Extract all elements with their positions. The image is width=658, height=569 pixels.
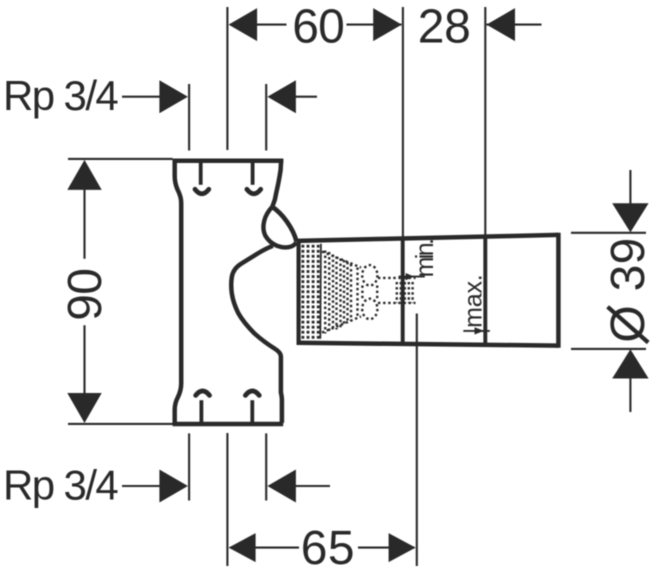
extension line Rp3/4 top right — [265, 84, 267, 151]
stipple loop lower — [362, 299, 377, 319]
leader tail Rp3/4 bottom right arrow — [290, 485, 330, 487]
arrow min — [406, 273, 415, 280]
body left profile — [175, 159, 182, 425]
extension line max (28) — [484, 7, 486, 236]
svg-text:Rp 3/4: Rp 3/4 — [3, 461, 118, 508]
cartridge top edge (cone) — [297, 235, 559, 241]
extension line min (60) — [402, 7, 404, 239]
dimension 60 line left tail — [230, 24, 287, 26]
knurl dot grid — [302, 245, 305, 248]
stipple cone col 6 — [356, 268, 358, 318]
stipple cone col 2b — [332, 255, 334, 331]
extension line d39 bottom — [571, 348, 646, 350]
dimension 65 left tail — [230, 547, 299, 549]
stipple knob col e — [411, 282, 413, 303]
extension line Rp3/4 bottom right — [265, 433, 267, 500]
stipple cone slant bottom — [322, 317, 361, 333]
stipple loop upper — [362, 265, 377, 285]
arrow 90 down — [67, 393, 101, 423]
stipple waist left — [361, 286, 363, 300]
svg-text:min.: min. — [411, 240, 439, 277]
stipple cone slant top — [322, 252, 361, 268]
extension line centre axis bottom — [226, 433, 228, 566]
label d39 (rotated) — [602, 237, 655, 342]
arrow 65 left — [229, 533, 256, 562]
stipple cone col 2 — [328, 252, 330, 332]
dimension d39 bottom tail — [629, 376, 631, 412]
svg-text:28: 28 — [418, 0, 471, 53]
knurl right boundary line — [319, 244, 322, 339]
dimension d39 top tail — [629, 170, 631, 205]
cartridge flange left edge — [297, 240, 301, 345]
svg-text:90: 90 — [59, 269, 112, 321]
min annotation line — [399, 276, 425, 278]
arrow max — [475, 327, 485, 334]
extension line Rp3/4 bottom left — [188, 433, 190, 500]
cartridge bottom edge (cone) — [297, 343, 559, 346]
body bottom edge — [173, 422, 284, 427]
stipple knob col b — [400, 282, 402, 303]
arrow Rp3/4 top left — [159, 80, 188, 113]
dimension 90 line upper — [83, 184, 85, 259]
leader line Rp3/4 top — [122, 96, 165, 98]
stipple cone col 4b — [343, 260, 345, 326]
leader line Rp3/4 bottom — [122, 485, 165, 487]
dimension 60 line right tail — [347, 24, 402, 26]
funnel left S-curve and lower right profile — [231, 246, 282, 423]
thread hook top-left cup — [195, 189, 209, 193]
max annotation line — [463, 330, 490, 332]
stipple cone col 1 — [324, 251, 326, 334]
max plaster line / cap left edge — [483, 236, 487, 345]
min plaster line — [401, 239, 405, 343]
arrow Rp3/4 top right — [267, 80, 296, 113]
stipple stem bottom row — [378, 302, 416, 304]
stipple cone col 3 — [335, 257, 337, 330]
svg-text:Rp 3/4: Rp 3/4 — [3, 72, 118, 119]
stipple knob col c — [404, 282, 406, 303]
extension line 90 bottom — [68, 423, 173, 425]
leader tail Rp3/4 top right arrow — [290, 96, 317, 98]
thread hook top-right cup — [247, 189, 261, 193]
body right profile upper — [272, 159, 281, 207]
svg-text:60: 60 — [292, 0, 344, 53]
thread hook bottom-left cup — [196, 391, 210, 395]
outlet teardrop loop — [263, 207, 296, 248]
extension line d39 top — [571, 232, 646, 234]
dimension 65 right tail — [358, 547, 415, 549]
stipple cone col 4 — [339, 259, 341, 328]
extension line 65 through cartridge — [416, 314, 418, 567]
thread hook bottom-left stem — [199, 400, 203, 423]
stipple cone col 5 — [346, 262, 348, 324]
arrow 60 right — [373, 8, 402, 41]
arrow d39 up — [612, 349, 648, 378]
arrow 90 up — [67, 160, 101, 190]
thread hook top-right stem — [251, 162, 255, 185]
thread hook top-left stem — [199, 162, 203, 185]
arrow 28 right (outside) — [487, 8, 516, 41]
stipple waist right — [376, 286, 378, 300]
stipple cone col 5b — [350, 264, 352, 321]
extension line Rp3/4 top left — [188, 84, 190, 151]
extension line 90 top — [68, 158, 173, 160]
dimension 90 line lower — [83, 325, 85, 398]
svg-text:65: 65 — [301, 522, 355, 569]
arrow 60 left — [229, 8, 258, 41]
arrow Rp3/4 bottom left — [159, 470, 188, 503]
stipple stem top row — [378, 277, 416, 279]
arrow 65 right — [389, 533, 416, 562]
stipple knob col a — [396, 282, 398, 303]
arrow d39 down — [612, 203, 648, 232]
dimension 28 right tail — [487, 24, 542, 26]
thread hook bottom-right stem — [250, 400, 254, 423]
cap right end edge — [556, 233, 561, 348]
extension line centre axis top — [226, 7, 228, 150]
svg-text:max.: max. — [460, 275, 488, 328]
body top edge — [173, 158, 284, 163]
thread hook bottom-right cup — [245, 391, 259, 395]
outlet teardrop outer curve — [272, 207, 296, 242]
stipple knob col d — [408, 282, 410, 303]
arrow Rp3/4 bottom right — [267, 470, 296, 503]
